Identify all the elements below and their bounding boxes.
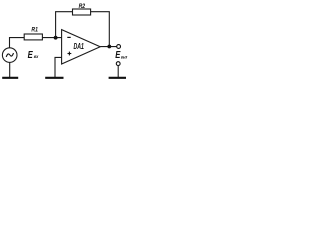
svg-text:R2: R2 — [79, 3, 86, 10]
wire: non-inverting input to ground — [55, 57, 62, 77]
output terminal top — [117, 45, 121, 49]
sine symbol — [6, 53, 13, 57]
wire: bottom terminal to ground — [117, 66, 119, 78]
svg-text:R1: R1 — [31, 27, 38, 34]
wire: feedback left vertical and top to R2 — [56, 12, 73, 38]
wire: op-amp output to terminal — [100, 46, 116, 48]
pin - (inverting input) — [67, 36, 70, 38]
wire: R1 right to op-amp inverting input — [42, 37, 61, 39]
resistor R2 — [73, 9, 91, 15]
svg-text:вых: вых — [121, 54, 128, 60]
ground (output) — [109, 77, 126, 79]
wire: source bottom to ground — [9, 62, 11, 77]
svg-text:вх: вх — [34, 54, 39, 59]
ground (source) — [2, 77, 18, 79]
node A (junction of R1, R2, op-amp input) — [54, 36, 58, 40]
wire: source top to R1 left — [10, 38, 25, 48]
op-amp DA1 — [62, 30, 101, 64]
wire: R2 right to output node — [91, 12, 110, 47]
svg-text:DA1: DA1 — [74, 43, 85, 51]
svg-text:E: E — [28, 49, 34, 60]
ground (op-amp + input) — [45, 77, 63, 79]
output terminal bottom — [116, 62, 120, 66]
resistor R1 — [24, 34, 42, 40]
pin + (non-inverting input) — [68, 53, 72, 55]
AC source G1 — [2, 48, 17, 63]
node B (output junction) — [107, 45, 111, 49]
